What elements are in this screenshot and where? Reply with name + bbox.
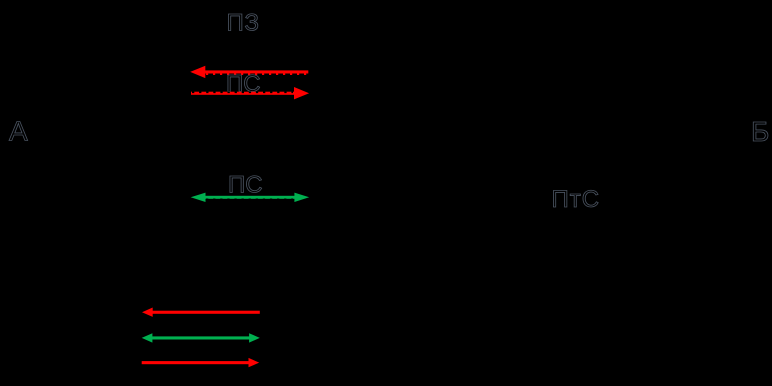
svg-text:Б: Б — [751, 116, 769, 147]
svg-text:ПЗ: ПЗ — [227, 10, 260, 37]
legend arrow green double-headed — [142, 333, 260, 342]
svg-text:ПС: ПС — [228, 171, 263, 198]
legend arrow red right-pointing — [142, 358, 260, 367]
svg-text:А: А — [9, 115, 28, 146]
legend arrow red left-pointing — [142, 308, 260, 317]
arrow red upper left-pointing — [190, 66, 308, 78]
svg-text:ПтС: ПтС — [552, 186, 601, 213]
arrow green double-headed (middle) — [191, 193, 310, 202]
arrow red lower right-pointing dashed — [191, 87, 309, 99]
